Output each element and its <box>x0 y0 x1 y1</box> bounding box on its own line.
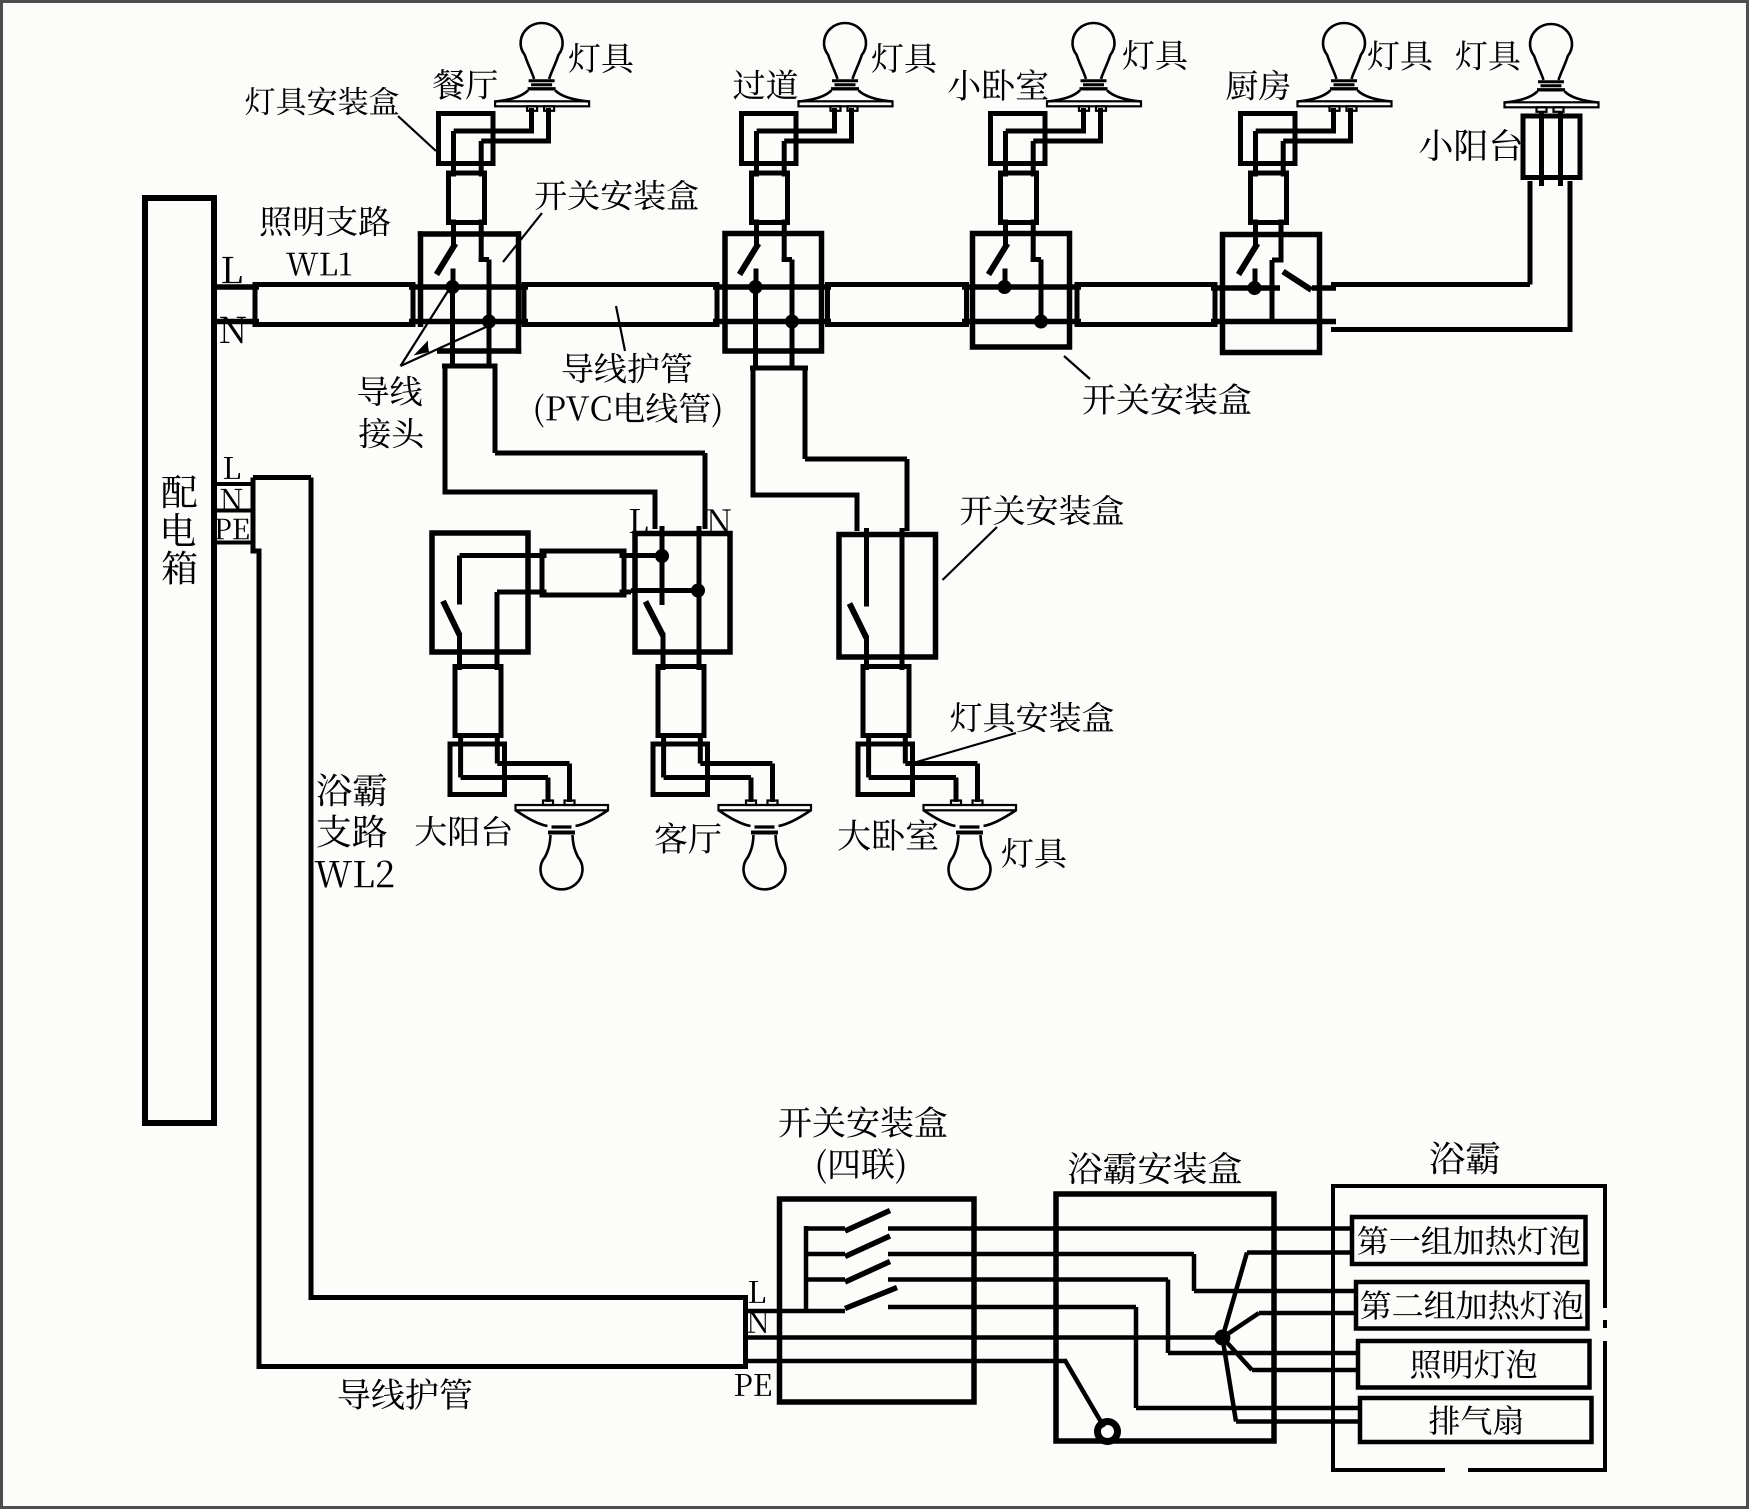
label 浴霸支路 line2 <box>317 815 350 848</box>
wire L inside SB5 <box>460 553 529 558</box>
switch fixed contact stub SB1 <box>451 269 456 288</box>
label 开关安装盒 top <box>535 181 566 210</box>
arrowhead 导线接头 <box>414 341 430 356</box>
lamp box 3 灯具安装盒 <box>991 114 1046 164</box>
lamp 5 shade <box>1505 91 1598 102</box>
wire lamp box 4 horizontal L <box>1256 129 1334 134</box>
conduit below SB6 <box>658 667 704 736</box>
label L (WL1) <box>222 257 241 283</box>
label 小阳台 <box>1420 129 1452 161</box>
wire N into lamp box 5 <box>495 733 500 764</box>
load box 排气扇 <box>1360 1398 1592 1442</box>
wire PE diagonal <box>1065 1360 1105 1428</box>
wire N riser upper SB2 <box>782 220 787 263</box>
wire lamp horizontal N 7 <box>905 761 977 766</box>
wire lamp horizontal N 5 <box>497 761 569 766</box>
wire N ray to light bulb <box>1222 1338 1252 1371</box>
wire switched-L into SB2 <box>754 220 759 247</box>
lamp 2 socket <box>832 79 858 82</box>
wire N riser jog SB3 <box>1031 257 1041 262</box>
label PE (4-gang) <box>735 1374 752 1396</box>
leader arrow to N joint <box>401 327 487 366</box>
wire N lamp drop 2 upper <box>782 141 787 177</box>
wire lamp pin N 7 <box>975 764 980 803</box>
wire PE WL2 <box>746 1359 1067 1364</box>
wire lamp pin N 1 <box>546 108 551 144</box>
WL2 conduit left wall upper <box>251 478 256 552</box>
lamp box 1 灯具安装盒 <box>439 114 494 164</box>
wire N drop below SB1 <box>487 322 492 369</box>
riser conduit left wall <box>1528 181 1533 285</box>
wire lamp pin L 6 <box>749 778 754 803</box>
label 照明灯泡 <box>1411 1350 1440 1379</box>
lamp 5 socket <box>1538 80 1564 83</box>
wire lamp box 1 horizontal L <box>454 129 532 134</box>
wire switched-L into lamp box 6 <box>661 733 666 778</box>
Z2 conduit left wall <box>751 368 756 498</box>
lamp box below SB6 <box>653 744 708 795</box>
leader arrow to L joint <box>401 291 449 366</box>
lamp below SB6 pin 1 <box>746 801 756 806</box>
wire N riser jog SB2 <box>782 257 792 262</box>
conduit above SB1 <box>449 173 485 223</box>
WL2 conduit bottom edge <box>257 1364 749 1369</box>
wire N WL2 through to junction <box>746 1335 1223 1340</box>
lamp 3 pin 2 <box>1096 106 1106 111</box>
WL2 conduit left wall <box>257 549 262 1370</box>
wire switched L4 to exhaust fan <box>1136 1406 1360 1411</box>
wire N riser lower SB3 <box>1039 260 1044 322</box>
wire N lamp drop 1 upper <box>479 141 484 177</box>
switch blade SB1 <box>437 244 456 275</box>
switch stub 3 <box>806 1277 845 1282</box>
lamp below SB6 shade brim <box>719 805 812 810</box>
label WL1 <box>286 253 318 276</box>
box 浴霸安装盒 <box>1056 1194 1274 1441</box>
label 大卧室 <box>838 819 870 850</box>
conduit above SB2 <box>752 173 788 223</box>
conduit between SB5 and SB6 <box>542 551 624 595</box>
label N (4-gang) <box>747 1311 768 1333</box>
wire switched L2 <box>888 1252 1194 1257</box>
wire N through box SB2 <box>713 319 831 325</box>
label 灯具 4 <box>1368 40 1399 70</box>
label PVC电线管 <box>536 393 544 427</box>
wire N through box SB4 <box>1211 319 1336 325</box>
junction dot N SB2 <box>785 315 799 329</box>
lamp box below SB5 <box>450 744 505 795</box>
wire L drop below SB2 <box>753 287 758 368</box>
lamp below SB5 pin 1 <box>543 801 553 806</box>
label WL2 <box>315 861 352 887</box>
label 灯具 3 <box>1123 40 1154 70</box>
lamp 1 shade brim <box>495 101 589 106</box>
Z1 conduit right wall <box>493 366 498 453</box>
lamp 4 pin 2 <box>1347 106 1357 111</box>
wires L through box SB3 <box>962 284 1081 290</box>
lamp below SB6 socket <box>755 825 775 828</box>
wire N into lamp box 6 <box>698 733 703 764</box>
wire switched L4 drop <box>1134 1307 1139 1408</box>
conduit above SB3 <box>1001 173 1037 223</box>
wire N through box SB3 <box>962 319 1081 325</box>
label 四联 <box>818 1149 826 1184</box>
wire lamp box 1 horizontal N <box>481 139 548 144</box>
dash gaps on bath heater box <box>1600 1308 1612 1320</box>
junction dot N SB3 <box>1034 315 1048 329</box>
wire N ray to exhaust fan <box>1222 1338 1236 1422</box>
terminal tick under L <box>216 482 252 486</box>
wire N left to conduit <box>631 588 698 593</box>
switch box SB3 开关安装盒 <box>973 234 1070 348</box>
lamp 1 shade <box>496 90 589 101</box>
wire lamp pin L 4 <box>1331 108 1336 134</box>
junction dot L SB6 <box>655 549 669 563</box>
label 灯具 5 <box>1456 40 1487 70</box>
lamp below SB7 shade brim <box>924 805 1017 810</box>
wire lamp pin N 4 <box>1348 108 1353 144</box>
lamp 5 pin 1 <box>1537 107 1547 112</box>
label PE (WL2 terminal) <box>215 519 231 539</box>
wire L into box SB4 <box>1211 285 1280 291</box>
load box 第一组加热灯泡 <box>1352 1217 1586 1264</box>
switch blade K1 <box>845 1211 890 1232</box>
conduit P5 top edge <box>1331 282 1530 287</box>
lamp below SB5 shade <box>516 811 608 827</box>
label 配电箱 <box>162 475 196 508</box>
lamp 2 shade <box>799 90 892 101</box>
wire switched L3 <box>888 1277 1168 1282</box>
Z1 conduit downleg left <box>653 492 658 529</box>
label 照明支路 <box>261 206 291 236</box>
Z1 conduit horizontal bottom <box>445 490 658 495</box>
lamp box 5 小阳台 <box>1523 116 1580 178</box>
lamp 3 socket <box>1081 79 1107 82</box>
lamp 5 bulb <box>1530 24 1572 80</box>
wire N riser upper SB3 <box>1031 220 1036 263</box>
label 导线 <box>358 376 388 406</box>
leader 灯具安装盒 middle <box>917 733 1017 762</box>
junction dot L SB1 <box>446 280 460 294</box>
Z2 conduit horizontal top <box>805 457 907 462</box>
lamp 3 pin 1 <box>1079 106 1089 111</box>
switch box SB6 客厅 <box>635 534 730 653</box>
label 灯具安装盒 middle <box>951 702 982 732</box>
Z1 conduit horizontal top <box>495 451 705 456</box>
wire L into SB7 <box>864 528 869 607</box>
lamp 4 socket <box>1331 79 1357 82</box>
Z1 conduit top cap <box>442 364 498 369</box>
wire N into lamp box 7 <box>903 733 908 764</box>
switch box SB4 开关安装盒 <box>1223 235 1320 353</box>
wire N ray to group1 <box>1222 1253 1247 1338</box>
junction dot L SB4 <box>1248 281 1262 295</box>
switch fixed contact stub SB2 <box>754 269 759 288</box>
label 导线护管 <box>562 353 592 383</box>
lamp 2 pin 1 <box>831 106 841 111</box>
label N (WL1) <box>220 317 246 343</box>
Z2 conduit downleg left <box>855 495 860 531</box>
conduit below SB7 <box>863 667 909 736</box>
label L (4-gang) <box>749 1281 765 1303</box>
WL2 conduit right wall <box>309 478 314 1301</box>
switch stub 1 <box>806 1226 845 1231</box>
lamp box below SB7 <box>858 744 913 795</box>
label N (SB6) <box>707 509 731 533</box>
lamp below SB7 pin 1 <box>951 801 961 806</box>
wire N ray to group2 <box>1222 1313 1259 1338</box>
wire lamp box 3 horizontal L <box>1006 129 1084 134</box>
wire switched L4 <box>888 1305 1136 1310</box>
lamp 1 bulb <box>521 23 563 79</box>
wire switched-L lamp drop 2 upper <box>754 131 759 177</box>
conduit below SB5 <box>455 667 501 736</box>
label 第二组加热灯泡 <box>1361 1290 1391 1319</box>
conduit P2 <box>524 285 717 325</box>
WL2 conduit end cap <box>743 1298 748 1367</box>
terminal tick under N <box>216 509 252 513</box>
wire lamp pin N 5 <box>567 764 572 803</box>
wire N through box SB1 <box>409 319 528 325</box>
load box 第二组加热灯泡 <box>1356 1282 1588 1329</box>
WL2 conduit left wall jog <box>251 549 260 554</box>
wire switched L1 to heater group1 <box>888 1226 1352 1231</box>
wire N riser upper SB1 <box>479 220 484 263</box>
wire lamp pin L 3 <box>1081 108 1086 134</box>
switch box SB2 开关安装盒 <box>725 234 822 352</box>
wire switched-L lamp drop 4 upper <box>1253 131 1258 177</box>
leader 开关安装盒 middle <box>943 527 998 580</box>
lamp 1 socket <box>529 79 555 82</box>
terminal tick under PE <box>216 541 252 545</box>
leader 导线护管 <box>616 306 625 351</box>
wire switched L2 drop <box>1192 1254 1197 1291</box>
label L (SB6) <box>630 509 648 533</box>
lamp 4 pin 1 <box>1330 106 1340 111</box>
wire L gap to SB6 <box>620 553 632 558</box>
Z2 conduit top cap <box>750 366 808 371</box>
wire lamp 5 L <box>1539 112 1544 186</box>
label 客厅 <box>655 822 687 853</box>
switch blade SB5 <box>443 601 460 635</box>
junction dot L SB3 <box>998 280 1012 294</box>
label 开关安装盒(四联) line1 <box>779 1107 811 1137</box>
WL2 conduit inner top edge <box>309 1295 749 1300</box>
wire L drop below SB1 <box>450 287 455 368</box>
wire N lamp 4 riser <box>1279 220 1284 263</box>
conduit P3 <box>828 285 967 325</box>
wire switched L3 to light bulb <box>1168 1351 1358 1356</box>
lamp 4 shade brim <box>1298 101 1392 106</box>
switch box SB1 left edge <box>418 231 424 327</box>
lamp 2 shade brim <box>799 101 893 106</box>
wire N drop SB5 <box>495 592 500 670</box>
lamp below SB5 pin 2 <box>565 801 575 806</box>
switch fixed contact stub SB4 <box>1253 269 1258 289</box>
wire lamp pin N 2 <box>849 108 854 144</box>
junction dot N SB6 <box>691 584 705 598</box>
switch stub 2 <box>806 1252 845 1257</box>
wire lamp box 2 horizontal N <box>784 139 851 144</box>
label 排气扇 <box>1429 1405 1459 1434</box>
Z2 conduit horizontal bottom <box>753 493 860 498</box>
label 浴霸安装盒 <box>1069 1152 1102 1184</box>
leader 开关安装盒 top <box>503 213 542 262</box>
label 接头 <box>359 418 390 449</box>
wire L left to conduit <box>631 553 662 558</box>
switch box SB1 top edge <box>418 231 521 237</box>
switch blade K4 <box>845 1288 897 1309</box>
wire switched-L drop SB6 <box>661 633 666 670</box>
wire switched-L into SB4 <box>1253 220 1258 247</box>
wire N stub from distribution box <box>214 319 259 325</box>
Z1 conduit downleg right <box>703 453 708 529</box>
wire switched-L into SB3 <box>1003 220 1008 247</box>
wire switched-L lamp drop 1 upper <box>451 131 456 177</box>
wire N lamp 4 jog <box>1272 258 1284 263</box>
label 大阳台 <box>416 816 447 846</box>
label 浴霸支路 line1 <box>317 774 351 807</box>
wire N inside SB5 <box>497 590 528 595</box>
switch fixed contact stub SB3 <box>1003 269 1008 288</box>
Z2 conduit downleg right <box>905 459 910 531</box>
lamp below SB7 pin 2 <box>973 801 983 806</box>
wire switched L2 to heater group2 <box>1194 1289 1356 1294</box>
Z1 conduit left wall <box>443 366 448 495</box>
switch box 4-gang 开关安装盒(四联) <box>780 1199 975 1402</box>
switch blade SB4 small balcony <box>1283 272 1312 291</box>
lamp below SB6 pin 2 <box>768 801 778 806</box>
lamp 5 pin 2 <box>1554 107 1564 112</box>
lamp box 2 灯具安装盒 <box>742 114 797 164</box>
label 灯具 bottom <box>1002 838 1033 868</box>
lamp 2 bulb <box>824 23 866 79</box>
leader 灯具安装盒 <box>398 116 436 151</box>
wire switched-L into lamp box 7 <box>866 733 871 778</box>
lamp below SB5 bulb <box>541 835 583 889</box>
wire lamp pin L 7 <box>954 778 959 803</box>
label 灯具 2 <box>872 43 903 73</box>
lamp below SB5 shade brim <box>516 805 609 810</box>
lamp below SB7 shade <box>924 811 1016 827</box>
wire L into SB6 <box>660 526 665 556</box>
lamp 1 pin 1 <box>527 106 537 111</box>
label 灯具 1 <box>569 43 600 73</box>
lamp 3 shade <box>1048 90 1141 101</box>
label 开关安装盒 right <box>1083 384 1115 414</box>
wire N drop SB6 <box>697 591 702 671</box>
wire lamp pin N 6 <box>770 764 775 803</box>
lamp 4 shade <box>1298 90 1391 101</box>
PE ground terminal circle <box>1098 1422 1118 1442</box>
wire L gap to SB5 <box>528 553 547 558</box>
wire lamp pin N 3 <box>1098 108 1103 144</box>
lamp 4 bulb <box>1323 23 1365 79</box>
switch blade K2 <box>845 1236 890 1257</box>
lamp 1 pin 2 <box>544 106 554 111</box>
conduit P4 <box>1077 285 1215 325</box>
wire switched-L drop SB5 <box>457 633 462 670</box>
wire switched-L into lamp box 5 <box>458 733 463 778</box>
label 餐厅 <box>433 69 464 100</box>
Z2 conduit right wall <box>803 368 808 459</box>
switch blade SB3 <box>989 244 1008 275</box>
wire L WL2 into 4-gang box <box>746 1309 846 1314</box>
label 导线护管 bottom <box>339 1379 370 1410</box>
load box 照明灯泡 <box>1358 1341 1590 1388</box>
lamp 3 bulb <box>1073 23 1115 79</box>
conduit P5 bottom edge <box>1331 327 1573 332</box>
wire N lamp drop 3 upper <box>1031 141 1036 177</box>
wire lamp 5 N <box>1558 112 1563 186</box>
box 浴霸 <box>1333 1186 1605 1470</box>
wire lamp horizontal L 7 <box>869 775 956 780</box>
wire switched-L lamp drop 3 upper <box>1003 131 1008 177</box>
wire lamp box 2 horizontal L <box>757 129 835 134</box>
junction dot N bath heater <box>1214 1330 1230 1346</box>
wire N lamp 4 down to N <box>1270 260 1275 324</box>
label 灯具安装盒 top-left <box>246 87 275 115</box>
switch box SB7 大卧室 <box>839 535 936 658</box>
switch contact stub SB6 <box>660 556 665 605</box>
label N (WL2 terminal) <box>221 489 242 511</box>
wire switched-L into SB1 <box>451 220 456 247</box>
label 浴霸 <box>1430 1142 1464 1175</box>
switch blade SB6 <box>646 602 664 636</box>
distribution box 配电箱 <box>145 198 214 1123</box>
wire N riser lower SB1 <box>487 260 492 322</box>
wire lamp pin L 5 <box>546 778 551 803</box>
switch blade SB7 <box>850 604 867 639</box>
switch contact stub SB5 <box>457 556 462 605</box>
label 过道 <box>734 70 765 100</box>
label 厨房 <box>1226 70 1257 100</box>
junction dot L SB2 <box>749 280 763 294</box>
lamp below SB6 shade <box>719 811 811 827</box>
junction dot N SB1 <box>482 315 496 329</box>
lamp 3 shade brim <box>1047 101 1141 106</box>
WL2 conduit top cap <box>253 475 311 480</box>
riser conduit right wall <box>1568 181 1573 332</box>
wire N gap to SB5 <box>528 590 547 595</box>
wires L through box SB2 <box>713 284 831 290</box>
wire switched-L drop SB7 <box>864 636 869 670</box>
lamp 2 pin 2 <box>848 106 858 111</box>
leader 开关安装盒 right <box>1064 356 1090 379</box>
switch box SB5 大阳台 <box>432 533 528 652</box>
wire L stub from distribution box <box>214 284 259 290</box>
wire lamp horizontal N 6 <box>700 761 772 766</box>
wire N into SB6 <box>697 526 702 591</box>
lamp 5 shade brim <box>1505 102 1599 107</box>
wire switched L3 drop <box>1166 1280 1171 1354</box>
conduit above SB4 <box>1251 173 1287 223</box>
wire N drop below SB2 <box>790 322 795 369</box>
switch blade SB2 <box>740 244 759 275</box>
wire lamp pin L 2 <box>832 108 837 134</box>
wire switched-L to small balcony <box>1312 285 1336 291</box>
lamp below SB5 socket <box>552 825 572 828</box>
wire lamp box 3 horizontal N <box>1033 139 1100 144</box>
lamp below SB7 socket <box>960 825 980 828</box>
lamp box 4 灯具安装盒 <box>1241 114 1296 164</box>
wire N riser lower SB2 <box>790 260 795 322</box>
switch box SB1 bottom edge <box>437 348 521 354</box>
wire lamp box 4 horizontal N <box>1283 139 1350 144</box>
wire L bus in 4-gang box <box>804 1226 809 1311</box>
wire lamp horizontal L 6 <box>664 775 751 780</box>
switch blade K3 <box>845 1262 890 1283</box>
